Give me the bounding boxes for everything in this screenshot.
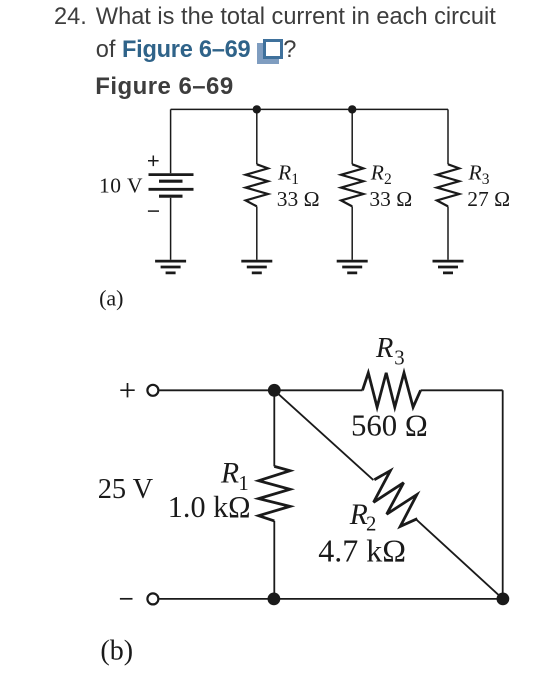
- svg-text:(a): (a): [99, 285, 123, 310]
- svg-text:R: R: [375, 333, 393, 364]
- svg-text:33 Ω: 33 Ω: [277, 187, 320, 211]
- svg-text:(b): (b): [100, 635, 133, 666]
- svg-text:R: R: [277, 160, 291, 184]
- svg-text:25 V: 25 V: [98, 474, 154, 505]
- svg-text:3: 3: [394, 346, 404, 369]
- svg-text:3: 3: [482, 171, 490, 188]
- svg-text:4.7 kΩ: 4.7 kΩ: [318, 532, 406, 568]
- svg-text:1.0 kΩ: 1.0 kΩ: [168, 490, 251, 524]
- svg-text:10 V: 10 V: [99, 174, 143, 198]
- svg-text:33 Ω: 33 Ω: [369, 187, 412, 211]
- svg-text:R: R: [468, 160, 482, 184]
- svg-text:R: R: [220, 458, 239, 490]
- svg-text:1: 1: [291, 171, 299, 188]
- svg-text:R: R: [370, 160, 384, 184]
- svg-text:27 Ω: 27 Ω: [467, 187, 510, 211]
- svg-text:560 Ω: 560 Ω: [351, 409, 428, 443]
- svg-text:2: 2: [384, 171, 392, 188]
